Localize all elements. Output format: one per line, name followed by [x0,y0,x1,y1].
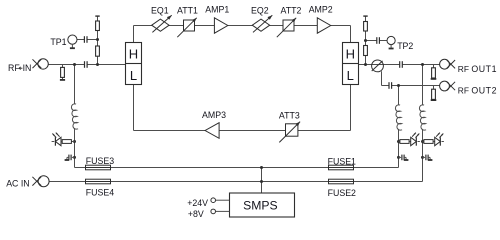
svg-text:SMPS: SMPS [243,198,278,212]
svg-text:H: H [129,47,138,62]
svg-text:RF: RF [458,64,469,74]
svg-text:H: H [346,47,355,62]
svg-text:AMP3: AMP3 [202,110,226,120]
svg-text:ATT1: ATT1 [177,6,198,16]
svg-text:AMP2: AMP2 [309,4,333,14]
svg-text:EQ2: EQ2 [251,6,269,16]
svg-text:+24V: +24V [187,198,208,208]
svg-text:ATT3: ATT3 [279,111,300,121]
svg-text:L: L [347,68,354,83]
svg-text:+8V: +8V [188,209,204,219]
svg-text:FUSE1: FUSE1 [328,156,356,166]
svg-text:RF: RF [458,85,469,95]
svg-text:RF: RF [8,63,20,73]
svg-text:TP1: TP1 [50,37,66,47]
svg-text:FUSE2: FUSE2 [328,188,356,198]
svg-text:FUSE4: FUSE4 [86,187,114,197]
svg-text:OUT1: OUT1 [471,64,497,74]
svg-text:L: L [130,68,137,83]
svg-text:AMP1: AMP1 [205,4,229,14]
svg-text:ATT2: ATT2 [281,6,302,16]
svg-text:EQ1: EQ1 [151,6,169,16]
svg-text:TP2: TP2 [397,41,413,51]
svg-text:FUSE3: FUSE3 [86,156,114,166]
svg-text:AC IN: AC IN [6,179,29,189]
svg-text:OUT2: OUT2 [471,85,497,95]
svg-text:IN: IN [23,63,32,73]
